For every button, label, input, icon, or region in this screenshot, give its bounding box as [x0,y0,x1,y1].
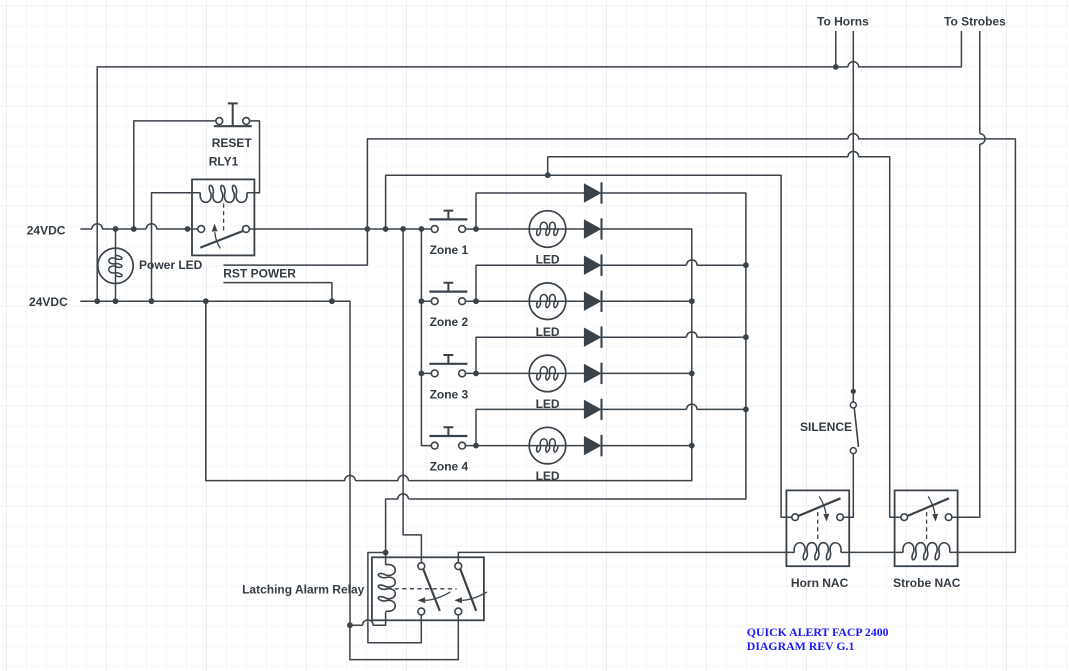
svg-text:RST POWER: RST POWER [223,267,296,281]
svg-text:Strobe NAC: Strobe NAC [893,576,961,590]
svg-text:LED: LED [536,253,560,267]
wire row B link [547,157,549,176]
wire zone4 diode output to V1 [602,445,692,447]
svg-text:To Horns: To Horns [817,14,869,28]
svg-text:QUICK ALERT FACP 2400: QUICK ALERT FACP 2400 [747,625,889,639]
svg-text:DIAGRAM REV G.1: DIAGRAM REV G.1 [747,639,855,653]
wire zone4 button to LED [465,445,584,447]
wire RST POWER lower run to bottom rail [223,283,332,302]
svg-text:LED: LED [536,325,560,339]
relay RLY1 dashed link [223,204,225,233]
wire zone2 upper diode branch [476,265,584,301]
wire zone3 button feed [421,372,431,374]
svg-text:Horn NAC: Horn NAC [791,576,849,590]
relay Horn NAC blade [798,498,840,516]
relay Horn NAC box [786,490,849,566]
relay Latching Alarm Relay blade 1 [423,569,440,611]
svg-text:LED: LED [536,469,560,483]
wire latch switch1 drive from main rail [403,229,421,563]
relay RLY1 contact left pin [198,226,205,233]
wire bottom 24VDC rail down to latch common [80,301,350,625]
svg-text:Latching Alarm Relay: Latching Alarm Relay [242,582,365,596]
svg-text:LED: LED [536,397,560,411]
svg-text:RESET: RESET [212,136,253,150]
diode zone2 upper [584,255,602,276]
wire zone2 diode output to V1 [602,300,692,302]
wire top net from left rail to To Strobes [97,31,961,301]
svg-text:RLY1: RLY1 [209,155,239,169]
pushbutton Zone 3 [429,355,467,377]
pushbutton RESET circles [216,118,223,125]
lamp LED zone1 [529,211,566,248]
wire zone1 diode output down V1 and LED return to bottom rail [206,229,692,481]
relay Latching Alarm Relay arrow 1 [425,592,450,600]
relay Horn NAC dashed link [817,512,819,542]
wire horn feed row from main rail [386,175,792,517]
svg-text:Zone 3: Zone 3 [430,387,469,401]
wire zone1 upper diode output to V2 [386,193,746,553]
wire main rail from 24VDC label to RLY1 [80,224,198,229]
diode zone2 [584,291,602,312]
wire RLY1 coil return to bottom rail [152,193,201,302]
wire power LED stem [115,229,117,301]
lamp LED zone3 [529,355,566,392]
svg-text:To Strobes: To Strobes [944,14,1006,28]
wire zone2 upper diode output to V2 [602,260,746,265]
relay Latching Alarm Relay coil [378,564,395,611]
wire strobe right drop from To Strobes [952,31,985,517]
relay Latching Alarm Relay dashed link [395,588,457,590]
relay Strobe NAC contact left pin [901,514,908,521]
diode zone3 upper [584,327,602,348]
wire latch common to coil bottom [350,612,386,625]
wire row B strobe feed [548,151,901,517]
relay Latching Alarm Relay contact pins [418,563,425,570]
wire To Horns stub [835,31,837,67]
lamp LED zone2 [529,283,566,320]
diode zone1 upper [584,182,602,203]
wire latch coil top stub [385,553,387,565]
relay RLY1 contact right pin [243,226,250,233]
wire zone2 button to LED [465,300,584,302]
relay RLY1 box [192,179,254,255]
relay Strobe NAC blade [907,498,949,516]
wire NAC bottom rail to latching relay contact [458,552,794,562]
diode zone1 [584,218,602,239]
wire reset button to RLY1 coil [247,121,260,193]
svg-text:24VDC: 24VDC [29,295,68,309]
wire zone3 diode output to V1 [602,372,692,374]
wire zone3 button to LED [465,372,584,374]
pushbutton Zone 1 [429,211,467,233]
wire silence to Horn NAC right contact [843,454,853,518]
relay Latching Alarm Relay arrow 2 [462,592,487,600]
diode zone4 [584,435,602,456]
svg-text:Power LED: Power LED [139,258,203,272]
relay RLY1 coil [200,185,247,202]
diode zone4 upper [584,399,602,420]
wire silence feed from To Horns [852,31,854,402]
lamp LED zone4 [529,427,566,464]
svg-text:Zone 4: Zone 4 [430,460,469,474]
wire zone4 upper diode branch [476,409,584,445]
relay RLY1 blade [200,231,243,248]
wire RST POWER upper run joining row A down to horn/strobe bottom rail [223,134,1015,553]
relay Strobe NAC box [895,490,958,566]
wire latch contact2 loop to common [350,615,458,660]
wire zone2 button feed [421,300,431,302]
svg-text:SILENCE: SILENCE [800,420,852,434]
relay Horn NAC actuation arrow [819,496,826,513]
relay Horn NAC contact right pin [837,514,844,521]
wire zone feed column [421,229,431,446]
relay Horn NAC coil [794,543,841,560]
switch SILENCE blade [854,408,858,447]
wire zone4 upper diode output to V2 [602,404,746,409]
relay Strobe NAC contact right pin [945,514,952,521]
relay RLY1 actuation arrow [215,232,221,248]
relay Horn NAC contact left pin [792,514,799,521]
wire NAC bottom rail between coils [841,551,903,553]
relay Strobe NAC actuation arrow [928,496,935,513]
wire zone3 upper diode output to V2 [602,332,746,337]
wire zone3 upper diode branch [476,337,584,373]
relay Latching Alarm Relay box [372,557,484,620]
svg-text:24VDC: 24VDC [27,224,66,238]
pushbutton Zone 4 [429,427,467,449]
wire reset button feed riser [134,121,216,229]
switch SILENCE contacts [850,402,856,408]
wire zone1 upper diode branch [476,193,584,229]
pushbutton RESET bar and plunger [214,125,252,127]
wire latch contact1 self hold loop [368,553,421,643]
lamp Power LED [98,248,133,283]
relay Strobe NAC coil [903,543,950,560]
wire zone1 button to LED [465,228,584,230]
svg-text:Zone 1: Zone 1 [430,243,469,257]
relay Strobe NAC dashed link [926,512,928,542]
wire main rail RLY1 to zone1 button [249,228,431,230]
pushbutton Zone 2 [429,283,467,305]
svg-text:Zone 2: Zone 2 [430,315,469,329]
diode zone3 [584,363,602,384]
relay Latching Alarm Relay blade 2 [460,569,476,611]
